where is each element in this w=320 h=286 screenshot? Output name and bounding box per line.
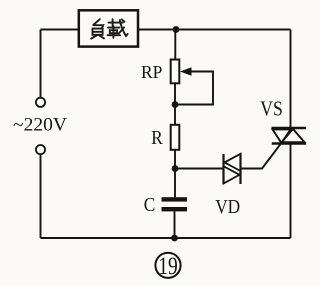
character 载 (load: zai) (108, 19, 128, 38)
svg-text:VS: VS (260, 97, 283, 121)
svg-text:C: C (144, 194, 156, 216)
wire middle vertical (top junction to RP) (174, 30, 176, 60)
svg-text:VD: VD (215, 196, 240, 218)
node junction R-C (to diac) (172, 165, 179, 172)
wire right vertical upper (top to triac) (290, 30, 292, 129)
wire top horizontal (load box to right side) (138, 29, 291, 31)
node junction top (above RP) (173, 26, 180, 33)
wire VD to triac gate (242, 129, 293, 169)
label ~220V (13, 114, 67, 135)
node junction bottom (below C) (171, 235, 178, 242)
potentiometer wiper arrow and loop (176, 67, 213, 104)
terminal lower circle (36, 145, 45, 154)
svg-text:RP: RP (141, 62, 162, 82)
wire RP to R (174, 83, 176, 125)
wire left vertical lower (terminal to bottom) (40, 155, 42, 239)
label VS (260, 97, 283, 121)
wire right vertical lower (triac to bottom) (290, 144, 292, 239)
node junction below RP (172, 101, 179, 108)
wire left vertical upper (to terminal) (40, 30, 42, 98)
wire top-left horizontal (AC top to load box) (41, 29, 79, 31)
wire C to bottom (174, 211, 176, 238)
character 负 (load: fu) (91, 19, 104, 38)
wire junction to VD (175, 168, 223, 170)
label R (151, 127, 163, 149)
diac VD (224, 154, 241, 185)
wire bottom horizontal (41, 237, 291, 239)
wire R to C (174, 150, 176, 197)
figure number 19 (155, 253, 180, 280)
capacitor C plates (162, 197, 188, 211)
svg-text:19: 19 (158, 253, 178, 280)
terminal upper circle (36, 98, 45, 107)
resistor R body (171, 125, 180, 150)
label VD (215, 196, 240, 218)
svg-text:~220V: ~220V (13, 114, 67, 135)
load box (79, 10, 138, 46)
label C (144, 194, 156, 216)
svg-text:R: R (151, 127, 163, 149)
label RP (141, 62, 162, 82)
potentiometer RP body (171, 60, 180, 84)
triac VS (272, 128, 307, 144)
